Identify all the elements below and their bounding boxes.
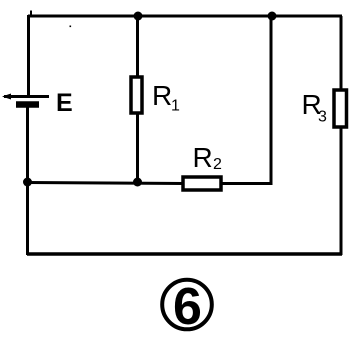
resistor R2 [183,177,221,190]
wire right vertical [340,16,343,255]
wire stub above top-left corner [30,11,32,18]
node junction dot top R1 [134,12,143,21]
wire left vertical upper [27,15,30,96]
node junction dot left mid [23,178,32,187]
svg-text:2: 2 [213,156,222,173]
node junction dot top mid [268,12,277,21]
battery E short thick plate [16,101,39,108]
resistor R1 [131,77,142,113]
wire middle horizontal right [221,182,273,185]
battery E plate arrow tip [2,94,11,100]
wire mid vertical from top junction [270,16,273,184]
svg-text:R: R [152,80,172,111]
wire bottom horizontal [27,252,342,256]
figure number circle [162,280,212,330]
battery E long plate [4,95,49,98]
svg-text:R: R [193,142,213,173]
svg-text:6: 6 [173,278,202,336]
svg-text:E: E [56,89,73,117]
wire left vertical lower [26,107,29,255]
resistor R3 [334,90,347,127]
svg-text:1: 1 [171,98,180,115]
svg-text:3: 3 [318,109,327,126]
wire top horizontal [28,15,342,18]
node junction dot R1 bottom [133,178,142,187]
stray speck [70,26,72,28]
wire R1 branch vertical [136,16,139,182]
wire middle horizontal left [27,183,184,184]
